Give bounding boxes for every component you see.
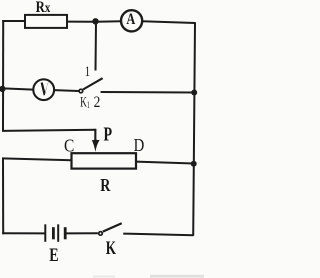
wire slider P horizontal xyxy=(2,130,96,131)
wire bottom left segment xyxy=(2,232,45,234)
wire node to voltmeter xyxy=(3,88,33,89)
svg-text:2: 2 xyxy=(94,94,101,111)
wire switch K to right vertical xyxy=(123,234,193,236)
svg-text:C: C xyxy=(64,135,74,155)
svg-text:R: R xyxy=(100,177,110,196)
wire rheostat right terminal xyxy=(136,162,194,164)
wire top left segment xyxy=(2,20,25,22)
junction node right (rheostat branch) xyxy=(191,161,197,167)
junction node under Rx/ammeter xyxy=(92,18,98,24)
battery E cell plate long 2 xyxy=(57,224,59,242)
wire switch K1 position-2 to right vertical xyxy=(101,91,195,94)
junction node right (voltmeter branch) xyxy=(191,90,197,96)
switch K lever xyxy=(103,223,122,231)
resistor Rx xyxy=(25,15,67,28)
svg-text:E: E xyxy=(49,244,58,266)
junction node left (voltmeter branch) xyxy=(0,86,6,92)
wire node to ammeter xyxy=(96,20,121,23)
voltmeter V xyxy=(33,79,54,100)
svg-text:P: P xyxy=(104,123,113,145)
wire rheostat left terminal xyxy=(2,158,72,160)
battery E cell plate short 1 xyxy=(52,227,55,239)
wire left vertical (bottom loop) xyxy=(2,158,4,235)
rheostat R body xyxy=(72,153,137,168)
ammeter A xyxy=(121,10,142,31)
svg-text:Rx: Rx xyxy=(36,0,51,16)
switch K1 pivot xyxy=(79,89,83,93)
switch K pivot xyxy=(99,232,103,236)
switch K1 lever xyxy=(83,78,103,89)
wire right vertical xyxy=(193,22,195,236)
wire left vertical (top loop) xyxy=(2,20,4,131)
wire switch K1 position-1 lead (vertical) xyxy=(95,22,98,71)
battery E cell plate short 2 xyxy=(64,227,67,239)
slider P arrow (shaft + head) xyxy=(92,129,100,152)
svg-text:1: 1 xyxy=(85,62,90,79)
wire battery to switch K xyxy=(66,232,98,234)
battery E cell plate long 1 xyxy=(44,224,46,242)
wire voltmeter to switch K1 pivot xyxy=(54,89,79,92)
svg-text:D: D xyxy=(134,135,145,156)
wire ammeter to right vertical xyxy=(142,21,195,23)
wire resistor to node xyxy=(67,21,96,23)
scan smudge bottom center xyxy=(93,275,115,277)
svg-text:K: K xyxy=(106,237,116,259)
svg-text:A: A xyxy=(126,11,136,29)
scan smudge bottom right xyxy=(150,275,204,278)
